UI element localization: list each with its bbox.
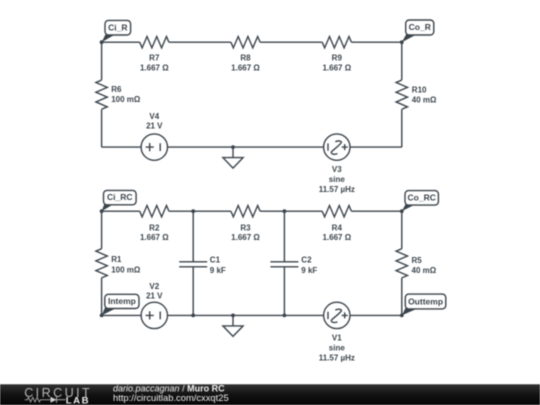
wire right rail of RC circuit (401, 211, 403, 315)
node gnd-RC dot (231, 314, 235, 318)
resistor R5 (396, 249, 407, 278)
ground (R circuit) (223, 147, 243, 168)
svg-text:R1: R1 (111, 255, 122, 264)
svg-text:C1: C1 (210, 256, 221, 265)
svg-text:1.667 Ω: 1.667 Ω (231, 233, 260, 242)
node Intemp dot (100, 314, 104, 318)
node label Ci_R (102, 20, 131, 42)
wire top rail of R circuit (102, 41, 402, 43)
node label Co_RC (402, 191, 439, 212)
resistor R6 (96, 80, 107, 109)
svg-text:9 kF: 9 kF (210, 266, 226, 275)
node label Ci_RC (102, 190, 137, 211)
node C1-top dot (191, 209, 195, 213)
node C2-top dot (283, 209, 287, 213)
wire left rail of RC circuit (101, 211, 103, 315)
resistor R3 (231, 206, 260, 217)
footer text (113, 383, 229, 403)
wire top rail of RC circuit (102, 210, 402, 212)
svg-text:R2: R2 (149, 223, 160, 232)
svg-text:Co_RC: Co_RC (408, 193, 436, 203)
svg-text:V4: V4 (149, 112, 159, 121)
svg-text:11.57 µHz: 11.57 µHz (319, 185, 355, 194)
svg-text:R8: R8 (240, 54, 251, 63)
node label Co_R (402, 20, 434, 42)
svg-text:V2: V2 (149, 282, 159, 291)
node gnd-R dot (231, 145, 235, 149)
resistor R1 (96, 249, 107, 278)
svg-text:sine: sine (329, 343, 346, 352)
resistor R8 (231, 37, 260, 48)
svg-text:Ci_RC: Ci_RC (107, 192, 133, 202)
node Co_RC dot (400, 209, 404, 213)
svg-text:LAB: LAB (66, 395, 90, 405)
svg-text:100 mΩ: 100 mΩ (111, 265, 141, 274)
svg-text:R10: R10 (412, 85, 427, 94)
capacitor C1 (179, 211, 207, 315)
svg-text:R9: R9 (332, 54, 343, 63)
svg-text:sine: sine (329, 175, 346, 184)
svg-text:1.667 Ω: 1.667 Ω (140, 233, 169, 242)
wire left rail of R circuit (101, 42, 103, 147)
svg-text:Intemp: Intemp (108, 296, 136, 306)
voltage source V3 (sine) (324, 134, 350, 160)
resistor R10 (396, 80, 407, 109)
wire right rail of R circuit (401, 42, 403, 147)
svg-text:1.667 Ω: 1.667 Ω (322, 233, 351, 242)
svg-text:1.667 Ω: 1.667 Ω (140, 63, 169, 72)
resistor R4 (322, 206, 351, 217)
node Co_R dot (400, 40, 404, 44)
svg-text:100 mΩ: 100 mΩ (111, 95, 141, 104)
resistor R7 (140, 37, 169, 48)
svg-text:V3: V3 (332, 165, 342, 174)
svg-text:R7: R7 (149, 54, 160, 63)
node Ci_RC dot (100, 209, 104, 213)
svg-text:R3: R3 (240, 223, 251, 232)
resistor R9 (322, 37, 351, 48)
CircuitLab logo (24, 386, 92, 405)
svg-text:R5: R5 (412, 256, 423, 265)
svg-text:9 kF: 9 kF (301, 266, 317, 275)
svg-text:40 mΩ: 40 mΩ (412, 266, 437, 275)
voltage source V2 (141, 302, 167, 328)
svg-text:V1: V1 (332, 333, 342, 342)
svg-text:R6: R6 (111, 85, 122, 94)
node C2-bot dot (283, 314, 287, 318)
voltage source V4 (141, 134, 167, 160)
svg-text:40 mΩ: 40 mΩ (412, 95, 437, 104)
svg-text:Outtemp: Outtemp (408, 296, 443, 306)
node C1-bot dot (191, 314, 195, 318)
svg-text:http://circuitlab.com/cxxqt25: http://circuitlab.com/cxxqt25 (113, 392, 229, 403)
voltage source V1 (sine) (324, 302, 350, 328)
svg-text:1.667 Ω: 1.667 Ω (322, 63, 351, 72)
wire bottom rail of RC circuit (102, 314, 402, 316)
svg-text:21 V: 21 V (146, 122, 163, 131)
node label Intemp (102, 294, 139, 315)
ground (RC circuit) (223, 315, 243, 336)
svg-text:1.667 Ω: 1.667 Ω (231, 63, 260, 72)
node label Outtemp (402, 294, 446, 315)
svg-text:Co_R: Co_R (409, 22, 431, 32)
node Ci_R dot (100, 40, 104, 44)
svg-text:Ci_R: Ci_R (108, 22, 127, 32)
svg-text:R4: R4 (332, 223, 343, 232)
resistor R2 (140, 206, 169, 217)
svg-text:C2: C2 (301, 256, 312, 265)
svg-text:11.57 µHz: 11.57 µHz (319, 353, 355, 362)
wire bottom rail of R circuit (102, 146, 402, 148)
capacitor C2 (270, 211, 298, 315)
svg-text:21 V: 21 V (146, 291, 163, 300)
node Outtemp dot (400, 314, 404, 318)
